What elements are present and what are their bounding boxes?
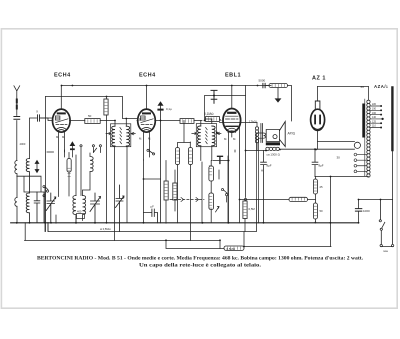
wire B+ node after choke: [246, 150, 266, 152]
tone switch contact: [244, 198, 246, 200]
svg-text:4000: 4000: [20, 142, 26, 146]
bottom resistor 05M: [224, 246, 244, 250]
bus chassis main: [11, 222, 359, 224]
wire drops to bus: [45, 150, 235, 232]
svg-text:EBL1: EBL1: [225, 73, 241, 79]
svg-text:160: 160: [372, 112, 377, 115]
coil band2 a: [26, 193, 29, 223]
tube2 leads: [137, 86, 180, 161]
cap 8uF b: [312, 149, 318, 176]
right heavy line: [391, 88, 393, 151]
wire left long vertical: [45, 97, 47, 232]
junction dot right resistor bus: [315, 222, 317, 224]
IFT2 hatch core: [206, 128, 208, 144]
wire resistor leads: [68, 153, 70, 197]
svg-text:0,1MΩ: 0,1MΩ: [204, 112, 214, 116]
antenna: [14, 86, 20, 161]
junction dot cathode link: [143, 178, 145, 180]
wire cathode link: [144, 178, 161, 180]
EBL1 beam bar: [226, 125, 238, 127]
tube EBL1: [223, 109, 241, 133]
osc coil pair b: [83, 196, 86, 221]
EBL1 anode line: [220, 122, 258, 124]
osc grid contact: [99, 145, 101, 153]
osc switch contact b: [92, 145, 96, 153]
wire horiz resistor: [240, 199, 316, 201]
AZ1 leads: [317, 87, 319, 150]
IFT1 hatch core: [120, 128, 122, 144]
svg-text:M.: M.: [148, 137, 151, 141]
IFT2 trimmer a: [192, 132, 197, 134]
top bus B+: [62, 85, 272, 87]
svg-text:50: 50: [88, 114, 92, 118]
wires mid resistors: [178, 121, 191, 241]
wire grid line tube1: [30, 118, 53, 159]
antenna lead marks: [16, 100, 18, 109]
mid resistors pair b: [188, 148, 192, 165]
svg-text:Un capo della rete-luce è coll: Un capo della rete-luce è collegato al t…: [139, 263, 262, 269]
svg-text:0,5MΩ: 0,5MΩ: [227, 247, 236, 251]
svg-text:M.: M.: [62, 135, 65, 139]
output transformer primary: [255, 123, 258, 151]
voice coil leads: [257, 133, 266, 200]
antenna coil L2: [15, 198, 17, 223]
osc coil single: [90, 153, 93, 172]
trimmer mid: [116, 185, 125, 232]
wire osc links: [76, 155, 90, 196]
wire tube2 cathode down: [144, 150, 150, 223]
IF transformer 2 box: [196, 124, 216, 147]
IFT2 winding a: [198, 126, 201, 146]
dashed AVC line: [170, 199, 204, 201]
wire y176: [315, 177, 368, 247]
power transformer core: [362, 104, 365, 138]
heater hairpin top: [318, 141, 355, 143]
wire screen line: [205, 96, 246, 121]
tube1 cathode arc: [56, 127, 67, 131]
wire mid verticals: [139, 119, 141, 121]
wire screen resistor: [106, 97, 108, 100]
osc coil pair a: [73, 196, 76, 224]
svg-text:30: 30: [337, 156, 341, 160]
cathode resistor small: [77, 214, 85, 219]
wires lower resistors: [166, 161, 175, 224]
wire bus2 verticals: [261, 170, 263, 171]
svg-text:0,5M: 0,5M: [249, 207, 256, 211]
junction dot top: [257, 85, 259, 87]
bus fourth: [166, 241, 331, 249]
wire EBL1 right vertical: [245, 86, 247, 198]
bus third: [25, 223, 221, 249]
cap 1000 bottom right: [355, 209, 361, 212]
grid resistor EBL1: [206, 117, 220, 122]
wire oscillator top: [46, 97, 138, 119]
svg-text:400: 400: [77, 210, 82, 214]
field coil: [266, 147, 280, 150]
osc switch contact a: [80, 145, 82, 196]
screen resistor tube1: [104, 99, 108, 115]
band switch contacts left: [43, 186, 49, 197]
wire right resistors: [315, 177, 317, 223]
svg-text:50: 50: [320, 209, 324, 213]
power transformer winding: [367, 87, 370, 178]
tube ECH4 no1: [53, 109, 71, 132]
bus second: [48, 200, 259, 247]
speaker voice coil: [266, 130, 279, 142]
wires pot: [211, 161, 228, 223]
antenna coil L1: [15, 161, 17, 198]
junction dot AZ1 rail: [315, 149, 317, 151]
svg-text:8μF: 8μF: [267, 164, 272, 168]
tube2 anode bar: [143, 112, 150, 114]
AVC arrows: [181, 198, 199, 202]
cap mid bottom: [144, 209, 158, 223]
tone resistor top: [269, 83, 288, 87]
junction dot screen resistor: [106, 96, 108, 98]
EBL1 grids: [226, 116, 239, 119]
power switch: [379, 200, 385, 245]
bypass cap with arrow: [158, 102, 163, 223]
svg-text:xx: xx: [361, 85, 365, 89]
IFT1 winding a: [112, 126, 115, 146]
svg-text:17kΩ/: 17kΩ/: [249, 120, 257, 124]
svg-text:AP/Ω: AP/Ω: [288, 132, 296, 136]
transformer taps: [370, 106, 382, 128]
top bus rectifier: [318, 86, 369, 88]
wire ift1 bottom leads: [107, 115, 128, 241]
resistor right lower: [313, 203, 317, 219]
svg-text:M.: M.: [56, 135, 59, 139]
junction dot screen: [213, 95, 215, 97]
svg-text:0,1µ: 0,1µ: [166, 107, 172, 111]
antenna series capacitor: [14, 117, 20, 120]
junction dot IFT1 grid: [125, 118, 127, 120]
heater terminals: [354, 153, 367, 172]
coupling arrow: [35, 161, 39, 173]
svg-text:rete: rete: [383, 249, 388, 253]
AZ1 neck: [315, 101, 320, 110]
tube1 leads: [41, 86, 85, 197]
tube AZ1: [311, 109, 325, 130]
svg-text:AZA/1: AZA/1: [374, 84, 388, 89]
wire coil link short: [47, 151, 54, 153]
wire filter rail right: [281, 148, 354, 150]
IFT2 trimmer b: [217, 132, 221, 134]
svg-text:BERTONCINI RADIO - Mod. B 51 -: BERTONCINI RADIO - Mod. B 51 - Onde medi…: [37, 256, 364, 262]
wire step a: [17, 176, 44, 222]
junction dot 228: [228, 160, 230, 162]
resistor 50k left: [67, 159, 71, 173]
variable capacitor tuning 1: [46, 193, 56, 223]
AZ1 anode plates: [315, 116, 320, 124]
tube1 grids: [55, 116, 68, 125]
lower resistors pair a: [164, 181, 168, 200]
svg-text:125: 125: [372, 120, 377, 123]
ground arrow top: [275, 88, 280, 102]
wire right power net: [359, 200, 393, 223]
svg-text:μF: μF: [151, 205, 155, 209]
svg-text:5000: 5000: [259, 79, 266, 83]
wire resistor to EBL1: [206, 119, 222, 121]
svg-text:M.: M.: [233, 137, 236, 141]
mid resistors pair a: [175, 148, 179, 165]
tube2 grids: [141, 116, 154, 125]
junction dot 239: [239, 199, 241, 201]
wire to IFT1: [100, 120, 115, 122]
IFT1 leads: [115, 119, 126, 127]
svg-text:8μF: 8μF: [319, 164, 324, 168]
capacitor grid tube1: [38, 115, 40, 121]
tube2 cathode arc: [141, 127, 152, 131]
coupling cap mid: [211, 90, 217, 103]
tap labels: [372, 103, 377, 128]
heater loop AZ1: [354, 142, 360, 148]
tube ECH4 no2: [138, 109, 156, 132]
cap 8uF a: [261, 151, 267, 223]
coupling cap T: [218, 156, 223, 163]
cathode cap arrow tube1: [70, 142, 74, 157]
svg-text:1000: 1000: [363, 209, 370, 213]
IFT1 trimmer a: [106, 132, 111, 134]
lower resistors pair b: [173, 183, 177, 200]
EBL1 leads: [229, 86, 240, 223]
volume pot lower: [209, 193, 214, 210]
EBL1 anode bar: [228, 112, 235, 114]
wire cap to resistor: [265, 85, 269, 87]
right line lower: [392, 150, 394, 199]
svg-text:ca 1300 Ω: ca 1300 Ω: [267, 153, 281, 157]
padding capacitor: [34, 192, 40, 223]
IFT1 trimmer b: [131, 132, 136, 134]
svg-text:x: x: [36, 110, 38, 114]
volume pot resistor: [209, 166, 214, 181]
IFT2 leads: [201, 119, 212, 161]
svg-text:ECH4: ECH4: [139, 73, 156, 79]
junction dot choke vertical: [330, 176, 332, 178]
wire antenna to bus: [16, 222, 18, 224]
svg-text:Ω 0,5MΩ: Ω 0,5MΩ: [100, 227, 110, 231]
resistor hatch marks: [68, 84, 317, 249]
wire after resistor: [288, 86, 292, 122]
output transformer core: [261, 124, 263, 143]
IFT1 winding b: [126, 126, 129, 146]
svg-text:ECH4: ECH4: [54, 73, 71, 79]
pot arrow: [216, 207, 220, 213]
IF transformer 1 box: [111, 124, 131, 147]
svg-text:M.: M.: [224, 137, 227, 141]
svg-text:220: 220: [372, 103, 377, 106]
power transformer core line: [364, 99, 366, 176]
cap 5000 top: [263, 83, 265, 88]
IFT2 winding b: [212, 126, 215, 146]
svg-text:AZ 1: AZ 1: [312, 76, 326, 82]
power plug: [380, 200, 394, 247]
wires resistor 244: [244, 219, 246, 232]
resistor right upper: [313, 179, 317, 194]
EBL1 cathode arc: [227, 128, 238, 132]
band switch contacts mid: [147, 149, 155, 155]
horizontal resistor mid right: [289, 197, 308, 201]
speaker magnet bar: [266, 142, 280, 145]
resistor mid vertical 244: [243, 201, 247, 219]
switch contacts mid: [221, 189, 227, 203]
speaker cone: [280, 122, 286, 147]
wire tube2 to IFT2: [194, 120, 202, 122]
svg-text:25: 25: [320, 185, 324, 189]
variable capacitor tuning 2: [90, 193, 101, 223]
svg-text:140: 140: [372, 116, 377, 119]
coil ant primary a: [26, 159, 29, 194]
anode resistor tube2: [180, 119, 194, 124]
AZ1 cathode arc: [314, 128, 322, 130]
svg-text:M.: M.: [139, 137, 142, 141]
svg-text:190: 190: [372, 108, 377, 111]
tap dots: [380, 105, 384, 128]
grid stopper tube1: [85, 119, 100, 124]
tube1 anode bar: [58, 112, 65, 114]
svg-text:110: 110: [372, 125, 376, 128]
